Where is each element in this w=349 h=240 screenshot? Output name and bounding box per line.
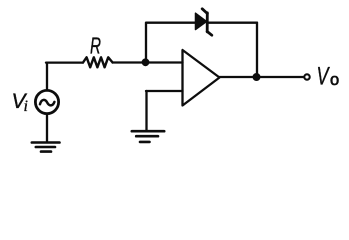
svg-text:i: i <box>24 98 28 115</box>
wire: op-amp output to terminal <box>220 76 305 78</box>
zener diode D1 <box>196 9 212 35</box>
wire: top feedback left segment <box>146 22 196 24</box>
wire: node up to feedback <box>145 23 147 63</box>
resistor R <box>83 57 113 67</box>
ground (source) <box>32 141 60 144</box>
wire: feedback down to output node <box>256 23 258 77</box>
wire: main horizontal to resistor <box>46 61 83 63</box>
wire: non-inverting input horizontal <box>146 90 183 92</box>
source Vi <box>35 90 58 113</box>
svg-text:R: R <box>90 33 101 59</box>
op-amp U1 <box>183 50 220 106</box>
ground (op-amp non-inverting input) <box>132 130 164 133</box>
svg-text:o: o <box>330 71 339 89</box>
wire: top feedback right segment <box>208 22 258 24</box>
wire: resistor to op-amp inverting input <box>113 61 183 63</box>
node A: inverting input junction <box>142 59 149 66</box>
terminal Vo open circle <box>304 74 309 79</box>
wire: source bottom to ground <box>46 114 48 143</box>
svg-text:V: V <box>317 63 331 91</box>
wire: non-inverting input down to ground <box>145 91 147 131</box>
wire: left vertical from source to main line <box>46 63 48 90</box>
node B: output junction <box>253 74 260 81</box>
